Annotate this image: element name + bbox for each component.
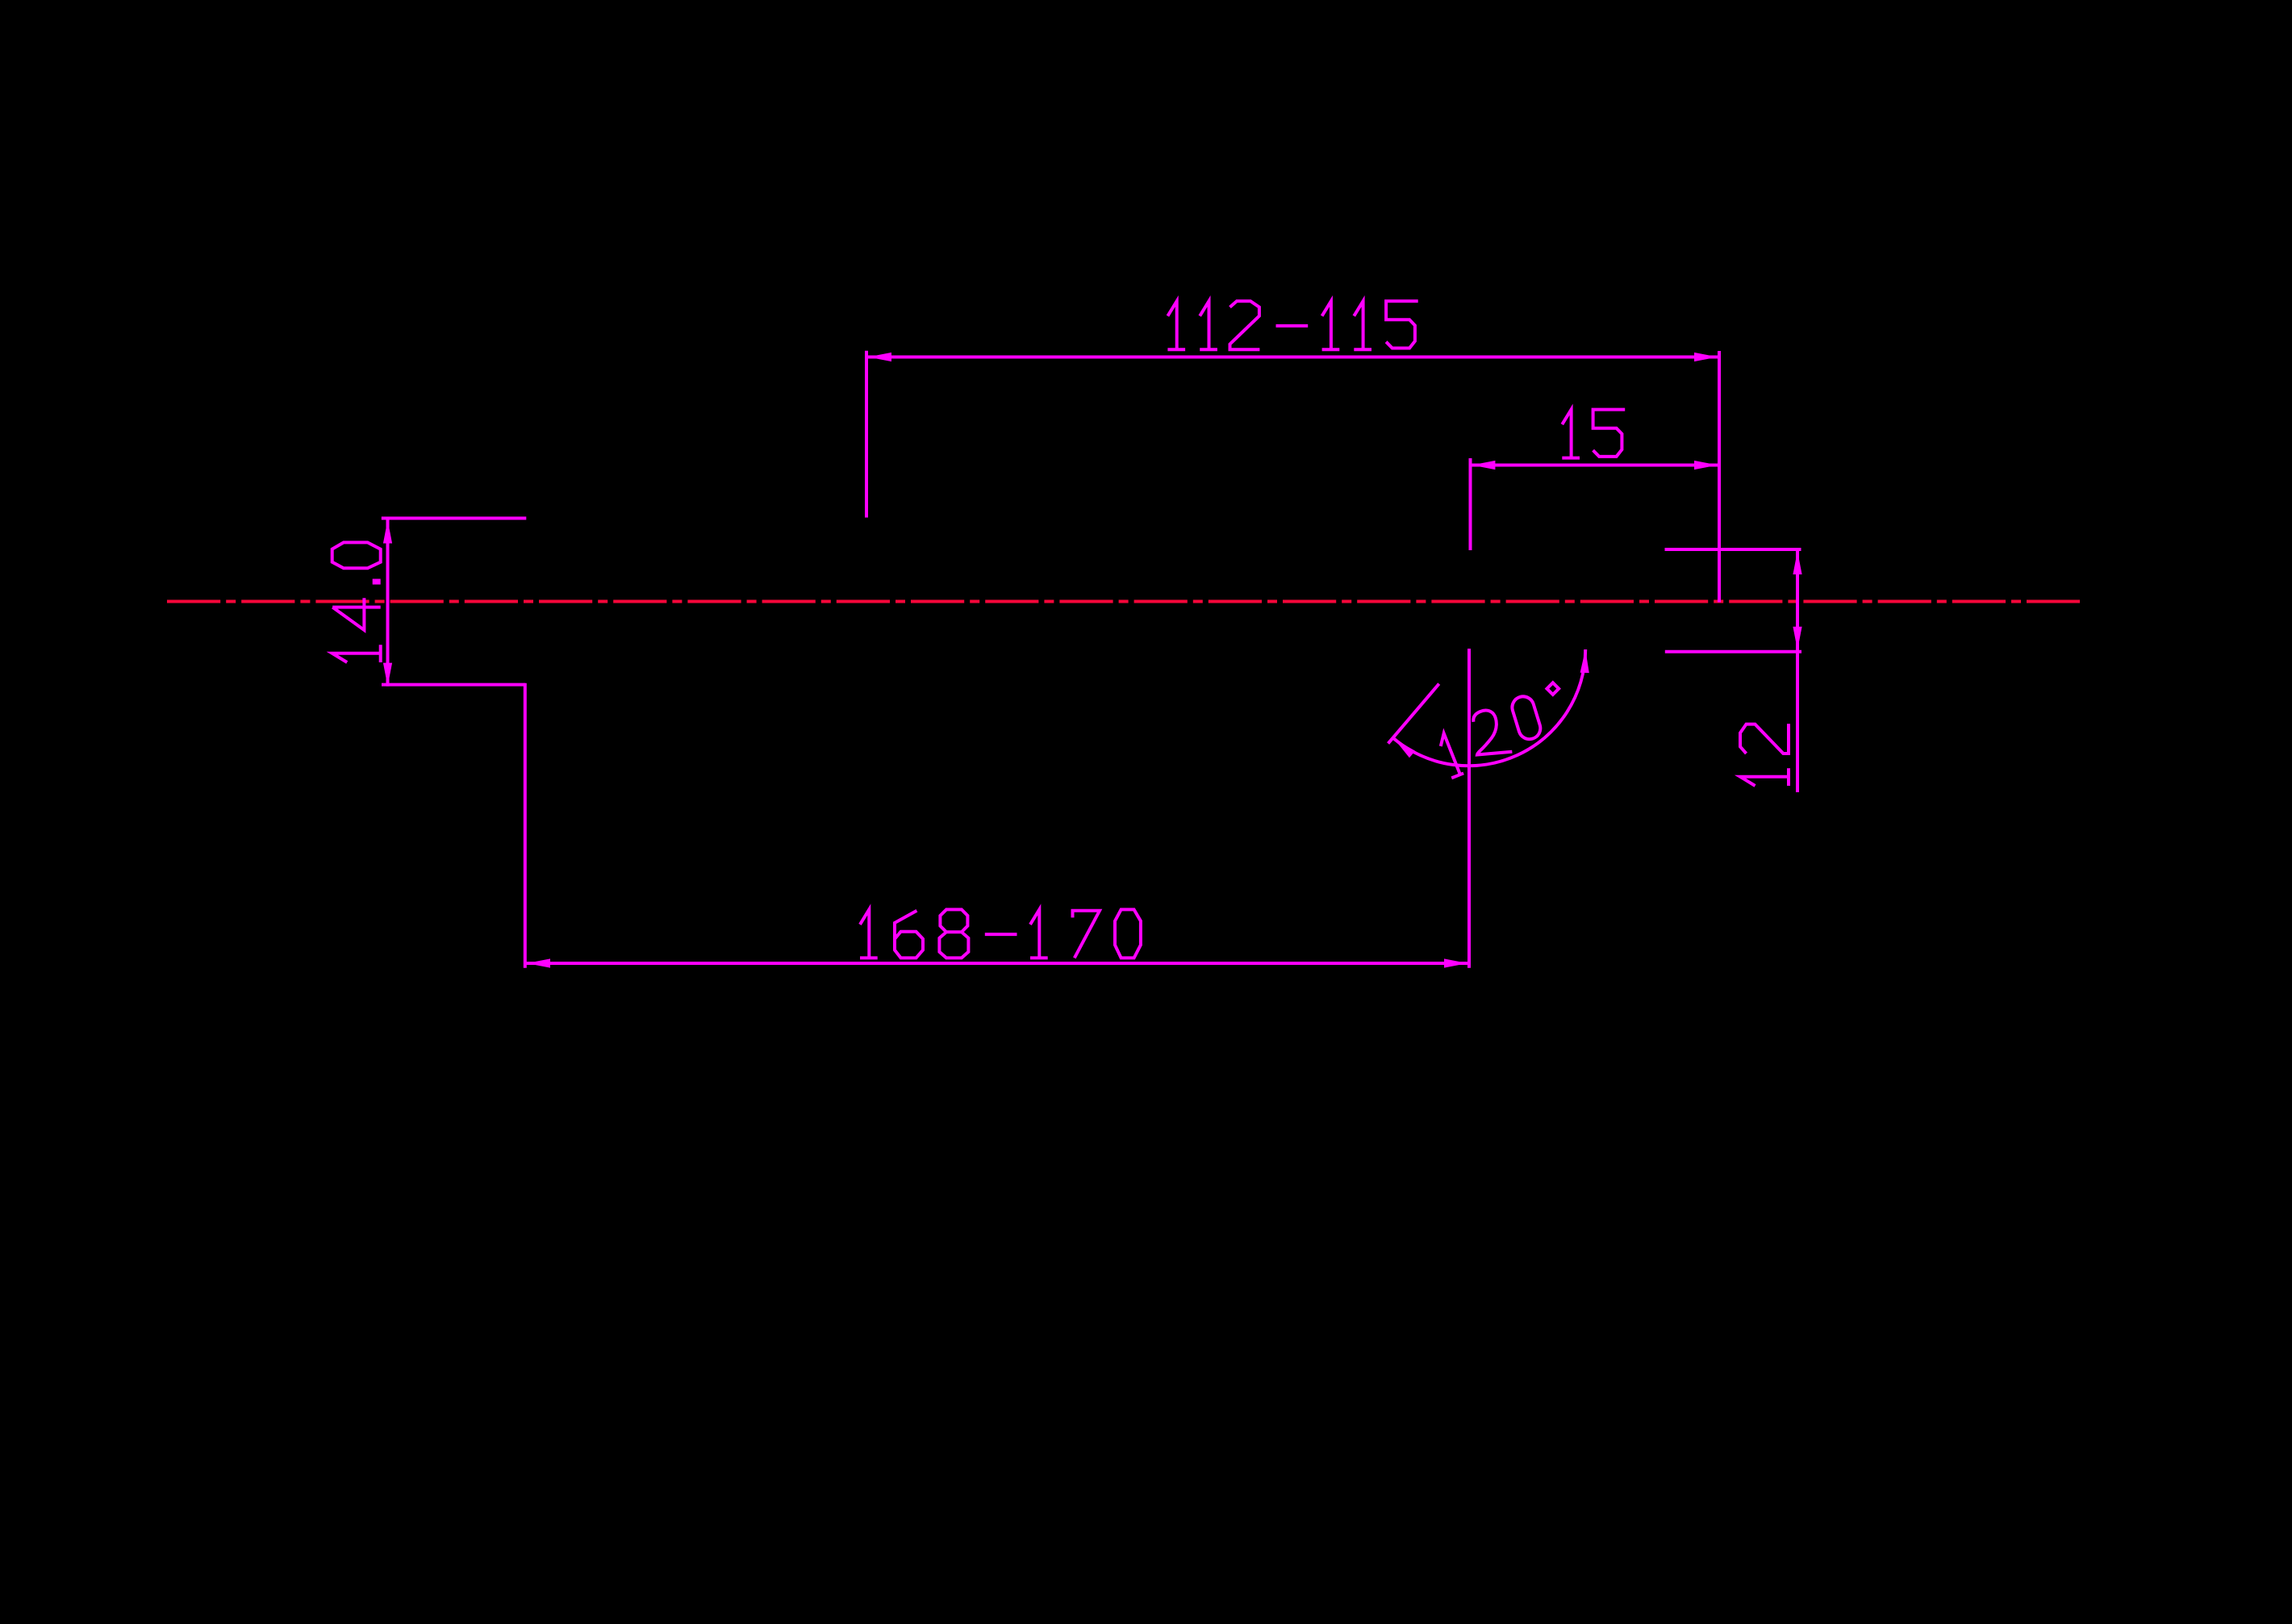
dimension 112-115: right arrowhead (1694, 353, 1718, 361)
angle 120: text "120°" (rotated, rounded font) (1435, 732, 1463, 778)
dimension 15: dimension line (1472, 464, 1718, 467)
dimension 168-170: text "168-170" (860, 909, 878, 958)
dimension 168-170: right arrowhead (1444, 958, 1467, 967)
dimension 12: dimension line (1796, 551, 1799, 792)
dimension 112-115: text "112-115" (1167, 301, 1185, 349)
dimension 112-115: left arrowhead (868, 353, 891, 361)
dimension 14.0: dimension line (386, 517, 390, 687)
dimension 15: left arrowhead (1472, 461, 1495, 470)
dimension 112-115 / 15: right extension line (1718, 351, 1721, 603)
dimension 168-170: dimension line (526, 962, 1468, 965)
dimension 15: left extension line (1469, 458, 1472, 550)
dimension 112-115: dimension line (867, 356, 1718, 359)
part outline: top-left edge (382, 516, 527, 520)
part outline: left shoulder vertical (524, 683, 527, 968)
dimension 14.0: text "14.0" (rotated) (332, 542, 381, 662)
dimension 15: right arrowhead (1694, 461, 1718, 470)
angle 120: vertex vertical leg (1467, 649, 1471, 968)
dimension 112-115: left extension line (865, 351, 868, 518)
dimension 14.0: bottom arrowhead (383, 663, 392, 687)
part outline: right lower edge (1665, 650, 1801, 653)
dimension 14.0: top arrowhead (383, 520, 392, 544)
angle 120: arc arrowhead lower-left (1392, 736, 1415, 758)
dimension 168-170: left arrowhead (527, 958, 550, 967)
dimension 12: text "12" (rotated) (1740, 724, 1789, 786)
angle 120: slanted leg (1388, 684, 1439, 744)
angle 120: dimension arc (1393, 649, 1586, 766)
part outline: lower-left edge (382, 683, 525, 687)
dimension 15: text "15" (1562, 410, 1580, 458)
angle 120: arc arrowhead upper-right (1580, 649, 1590, 673)
part outline: right upper edge (1665, 548, 1801, 551)
red centerline (shaft axis) (167, 600, 2080, 603)
dimension 12: top arrowhead (1793, 551, 1801, 574)
dimension 12: bottom arrowhead (1793, 627, 1801, 650)
